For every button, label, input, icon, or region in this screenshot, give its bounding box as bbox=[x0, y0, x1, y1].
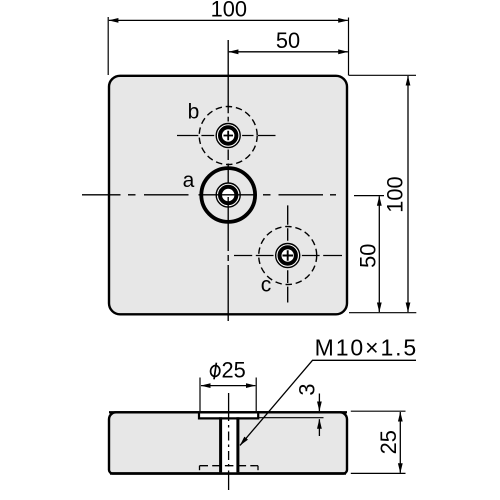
dimension phi25: extension line left bbox=[199, 378, 201, 412]
hole a outer circle (thick) bbox=[201, 168, 255, 222]
dimension 100 right: extension line top bbox=[349, 74, 416, 76]
svg-text:100: 100 bbox=[383, 176, 408, 212]
svg-text:3: 3 bbox=[294, 383, 319, 395]
dimension phi25: phi symbol bbox=[209, 362, 220, 380]
hole c crosshair vertical bbox=[287, 205, 289, 302]
M10 tapped hole right wall bbox=[236, 417, 239, 472]
M10 tapped hole left wall bbox=[219, 417, 222, 472]
dimension phi25: extension line right bbox=[255, 378, 257, 412]
dimension 100 top: dimension line bbox=[109, 19, 348, 21]
side view bottom edge line bbox=[110, 472, 346, 474]
M10 tapped hole bore (white) bbox=[222, 420, 236, 473]
hidden bottom recess edge (dashed) bbox=[200, 465, 259, 467]
dimension 100 top: extension line left bbox=[107, 17, 109, 75]
hidden bottom recess right edge bbox=[257, 466, 259, 471]
svg-text:50: 50 bbox=[356, 244, 381, 268]
svg-text:25: 25 bbox=[376, 430, 401, 454]
vertical centerline of plate (dash-dot segments) bbox=[227, 40, 229, 321]
thread leader line bbox=[240, 360, 416, 445]
dimension 100 right: extension line bottom bbox=[349, 312, 416, 314]
hole b crosshair horizontal bbox=[177, 135, 276, 137]
hole b center cross bbox=[224, 131, 234, 141]
svg-text:a: a bbox=[183, 169, 195, 192]
svg-text:c: c bbox=[261, 273, 272, 296]
hole c bolt circle (dashed) bbox=[259, 227, 317, 285]
hole a washer outer circle bbox=[216, 183, 240, 207]
side view vertical centerline lower bbox=[228, 474, 230, 490]
side view vertical centerline upper bbox=[228, 393, 230, 412]
side view vertical centerline (dash-dot) bbox=[228, 412, 230, 474]
plate side view body bbox=[109, 412, 347, 473]
svg-text:25: 25 bbox=[222, 358, 246, 383]
hole b screw circle (thick) bbox=[220, 127, 236, 143]
hole c center cross bbox=[283, 250, 294, 261]
dimension 50 right: dimension line bbox=[378, 196, 380, 312]
dimension 3: extension line bbox=[259, 417, 324, 419]
hole a screw circle (thick) bbox=[220, 187, 236, 203]
plate top view body bbox=[109, 76, 347, 314]
horizontal centerline of plate (dash-dot segments) bbox=[82, 194, 336, 196]
counterbore recess outline bbox=[199, 412, 258, 418]
hole b bolt circle (dashed) bbox=[199, 107, 257, 165]
dimension 50 right: extension line bbox=[354, 195, 384, 197]
hole c washer outer circle bbox=[276, 244, 300, 268]
svg-text:M10×1.5: M10×1.5 bbox=[315, 334, 418, 360]
counterbore recess (white) bbox=[199, 414, 258, 419]
svg-text:100: 100 bbox=[211, 0, 247, 21]
dimension 25 right: dimension line bbox=[399, 412, 401, 473]
dimension 25 right: extension line top bbox=[351, 410, 406, 412]
svg-text:50: 50 bbox=[276, 28, 300, 53]
dimension 100 right: dimension line bbox=[407, 76, 409, 312]
hidden bottom recess left edge bbox=[199, 466, 201, 471]
dimension phi25: dimension line bbox=[201, 385, 255, 387]
hole c crosshair horizontal bbox=[234, 255, 342, 257]
dimension 50 top: dimension line bbox=[229, 51, 348, 53]
hole c screw circle (thick) bbox=[280, 247, 296, 263]
svg-text:b: b bbox=[188, 101, 200, 124]
dimension 25 right: extension line bottom bbox=[351, 472, 406, 474]
side view top edge line bbox=[109, 411, 347, 413]
hole b washer outer circle bbox=[216, 124, 240, 148]
dimension 3: upper arrow line bbox=[318, 394, 320, 412]
dimension 100 top: extension line right bbox=[348, 18, 350, 76]
dimension 3: lower arrow line bbox=[318, 419, 320, 436]
